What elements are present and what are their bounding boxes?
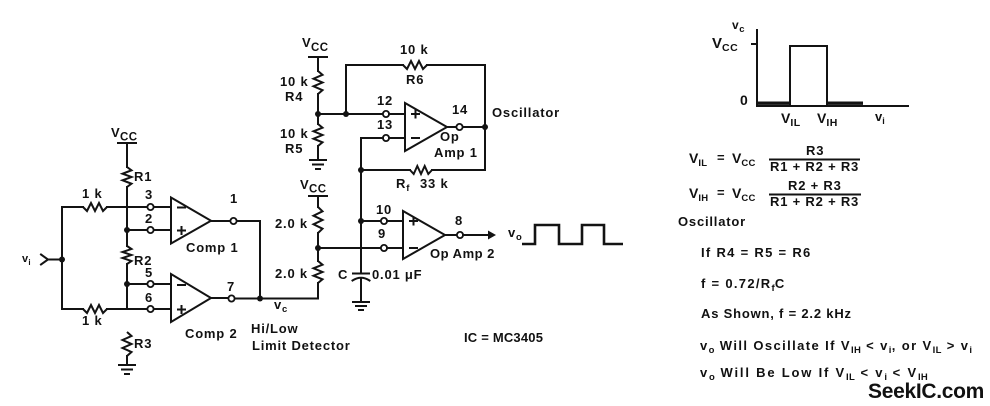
svg-text:0.01 μF: 0.01 μF xyxy=(372,267,422,282)
svg-text:=: = xyxy=(717,150,725,165)
wire up to R6 xyxy=(346,65,403,114)
graph trace low-left xyxy=(757,101,790,104)
svg-text:10 k: 10 k xyxy=(280,74,309,89)
graph trace low-right xyxy=(827,101,863,104)
wire 2.0k lower to vc line xyxy=(317,283,319,299)
graph pulse xyxy=(790,46,827,106)
svg-text:Oscillator: Oscillator xyxy=(678,214,746,229)
svg-text:IC = MC3405: IC = MC3405 xyxy=(464,330,543,345)
svg-text:R3: R3 xyxy=(806,143,824,158)
svg-text:As Shown, f = 2.2 kHz: As Shown, f = 2.2 kHz xyxy=(701,306,852,321)
pin 8 xyxy=(445,213,463,238)
wire pin14 to right rail xyxy=(463,126,485,128)
formula VIH xyxy=(689,178,860,209)
power VCC (left) xyxy=(111,125,138,144)
pin 1 xyxy=(211,191,238,224)
square wave output xyxy=(522,225,623,244)
svg-text:1 k: 1 k xyxy=(82,313,102,328)
svg-text:Op: Op xyxy=(440,129,460,144)
svg-text:R1 + R2 + R3: R1 + R2 + R3 xyxy=(770,194,859,209)
pin 12 xyxy=(377,93,393,117)
node pin10 junction xyxy=(358,218,364,224)
svg-text:9: 9 xyxy=(378,226,386,241)
wire divider to pin9 xyxy=(318,247,381,249)
ground (C) xyxy=(353,302,369,310)
svg-text:1 k: 1 k xyxy=(82,186,102,201)
svg-text:Hi/Low: Hi/Low xyxy=(251,321,298,336)
op-amp Op Amp 2 xyxy=(403,211,495,261)
svg-text:8: 8 xyxy=(455,213,463,228)
pin 3 xyxy=(145,187,154,210)
svg-text:R2 + R3: R2 + R3 xyxy=(788,178,842,193)
node vc label xyxy=(274,297,288,315)
resistor R3 xyxy=(123,332,153,356)
node vi junction xyxy=(59,257,65,263)
node R6 tap junction xyxy=(343,111,349,117)
svg-text:=: = xyxy=(717,185,725,200)
wire pin10 line xyxy=(361,220,381,222)
wire pin2 line xyxy=(127,229,147,231)
wire pin10 to opamp2 xyxy=(387,220,403,222)
resistor R5 xyxy=(280,124,323,156)
svg-text:Comp 1: Comp 1 xyxy=(186,240,238,255)
resistor R4 xyxy=(280,71,323,104)
svg-text:If R4 = R5 = R6: If R4 = R5 = R6 xyxy=(701,245,812,260)
wire VCC to R1 xyxy=(126,143,128,167)
wire R6 to right rail xyxy=(427,65,485,170)
svg-text:R3: R3 xyxy=(134,336,152,351)
resistor R2 xyxy=(123,246,153,268)
resistor 2.0k (upper) xyxy=(275,207,323,233)
svg-text:C: C xyxy=(338,267,348,282)
ground (R5) xyxy=(310,160,326,169)
resistor 1k (top) xyxy=(82,186,107,211)
svg-text:6: 6 xyxy=(145,290,153,305)
wire pin2 to comp1 xyxy=(154,229,171,231)
svg-text:0: 0 xyxy=(740,92,748,108)
op-amp Op Amp 1 xyxy=(405,103,478,160)
resistor 2.0k (lower) xyxy=(275,261,323,283)
wire pin6 to comp2 xyxy=(154,308,171,310)
graph label vi xyxy=(875,109,885,126)
wire comp1 output to vc rail xyxy=(237,221,260,299)
svg-text:10 k: 10 k xyxy=(400,42,429,57)
power VCC (R4 top) xyxy=(302,35,329,57)
pin 13 xyxy=(377,117,393,141)
svg-text:5: 5 xyxy=(145,265,153,280)
op-amp Comp 2 xyxy=(171,274,237,341)
svg-text:33 k: 33 k xyxy=(420,176,449,191)
wire pin6 line left xyxy=(62,308,83,310)
wire pin13 to Rf node xyxy=(361,138,383,170)
svg-text:SeekIC.com: SeekIC.com xyxy=(868,380,984,403)
wire left input rail xyxy=(61,207,63,309)
wire pin13 to opamp1 xyxy=(389,137,405,139)
text f = 0.72/RfC xyxy=(701,276,786,294)
pin 10 xyxy=(376,202,392,224)
svg-text:R1: R1 xyxy=(134,169,152,184)
capacitor C 0.01uF xyxy=(338,267,422,302)
resistor 1k (bottom) xyxy=(82,305,107,328)
wire 1k to pin6 xyxy=(107,308,147,310)
pin 9 xyxy=(378,226,387,251)
wire pin12 to opamp1 xyxy=(389,113,405,115)
formula VIL xyxy=(689,143,859,174)
svg-text:13: 13 xyxy=(377,117,393,132)
svg-text:2: 2 xyxy=(145,211,153,226)
wire R4 to R5 xyxy=(317,94,319,124)
resistor Rf 33k xyxy=(396,166,449,194)
pin 6 xyxy=(145,290,154,312)
power VCC (2.0k top) xyxy=(300,177,327,196)
svg-text:10 k: 10 k xyxy=(280,126,309,141)
graph label VCC xyxy=(712,35,738,54)
svg-text:R6: R6 xyxy=(406,72,424,87)
graph x-axis xyxy=(757,105,908,107)
wire pin3 line left xyxy=(62,206,83,208)
pin 5 xyxy=(145,265,154,287)
wire R5 to ground xyxy=(317,146,319,160)
wire pin8 output with arrow xyxy=(463,231,496,240)
node pin5 junction xyxy=(124,281,130,287)
wire pin5 to comp2 xyxy=(154,283,171,285)
resistor R6 xyxy=(400,42,429,87)
wire pin5 line xyxy=(127,283,147,285)
input arrow vi xyxy=(41,255,62,265)
wire 1k to pin3 xyxy=(107,206,147,208)
svg-text:3: 3 xyxy=(145,187,153,202)
graph label VIH xyxy=(817,110,838,129)
node vc junction xyxy=(257,296,263,302)
wire R1 to pin2 node xyxy=(126,187,128,246)
svg-text:Oscillator: Oscillator xyxy=(492,105,560,120)
graph axis label vc xyxy=(732,18,745,35)
wire R2 to pin5 node xyxy=(126,264,128,309)
svg-text:2.0 k: 2.0 k xyxy=(275,266,308,281)
node Rf junction left xyxy=(358,167,364,173)
svg-text:14: 14 xyxy=(452,102,468,117)
pin 2 xyxy=(145,211,154,233)
wire comp2 output to vc node xyxy=(235,298,318,300)
ground (R3) xyxy=(119,365,135,374)
node oscillator output junction xyxy=(482,124,488,130)
wire 2.0k to divider node xyxy=(317,233,319,261)
svg-text:Op Amp 2: Op Amp 2 xyxy=(430,246,495,261)
wire pin9 to opamp2 xyxy=(387,247,403,249)
svg-text:10: 10 xyxy=(376,202,392,217)
svg-text:Limit Detector: Limit Detector xyxy=(252,338,351,353)
svg-text:7: 7 xyxy=(227,279,235,294)
pin 7 xyxy=(211,279,235,302)
svg-text:R5: R5 xyxy=(285,141,303,156)
svg-text:2.0 k: 2.0 k xyxy=(275,216,308,231)
svg-text:1: 1 xyxy=(230,191,238,206)
wire Rf left segment xyxy=(361,169,410,171)
node pin2 junction xyxy=(124,227,130,233)
text vo will oscillate xyxy=(700,338,972,356)
text vo will be low xyxy=(700,365,928,383)
node vo label xyxy=(508,225,522,243)
svg-text:R1 + R2 + R3: R1 + R2 + R3 xyxy=(770,159,859,174)
node R4-R5 junction xyxy=(315,111,321,117)
wire VCC to 2.0k xyxy=(317,196,319,207)
svg-text:R4: R4 xyxy=(285,89,303,104)
resistor R1 xyxy=(123,167,153,187)
graph VCC tick xyxy=(752,43,757,45)
op-amp Comp 1 xyxy=(171,198,238,256)
svg-text:12: 12 xyxy=(377,93,393,108)
node vi input label xyxy=(22,253,31,267)
wire pin3 to comp1 xyxy=(154,206,171,208)
graph y-axis xyxy=(756,30,758,106)
wire R3 to ground xyxy=(126,356,128,365)
wire Rf right segment xyxy=(432,169,485,171)
svg-text:Comp 2: Comp 2 xyxy=(185,326,237,341)
wire pin13 rail down to cap xyxy=(360,170,362,274)
svg-text:Amp 1: Amp 1 xyxy=(434,145,478,160)
graph label VIL xyxy=(781,110,801,129)
label Hi/Low Limit Detector xyxy=(251,321,351,353)
pin 14 xyxy=(447,102,468,130)
node divider junction xyxy=(315,245,321,251)
wire VCC to R4 xyxy=(317,57,319,71)
wire R4R5 node to pin12 xyxy=(318,113,383,115)
